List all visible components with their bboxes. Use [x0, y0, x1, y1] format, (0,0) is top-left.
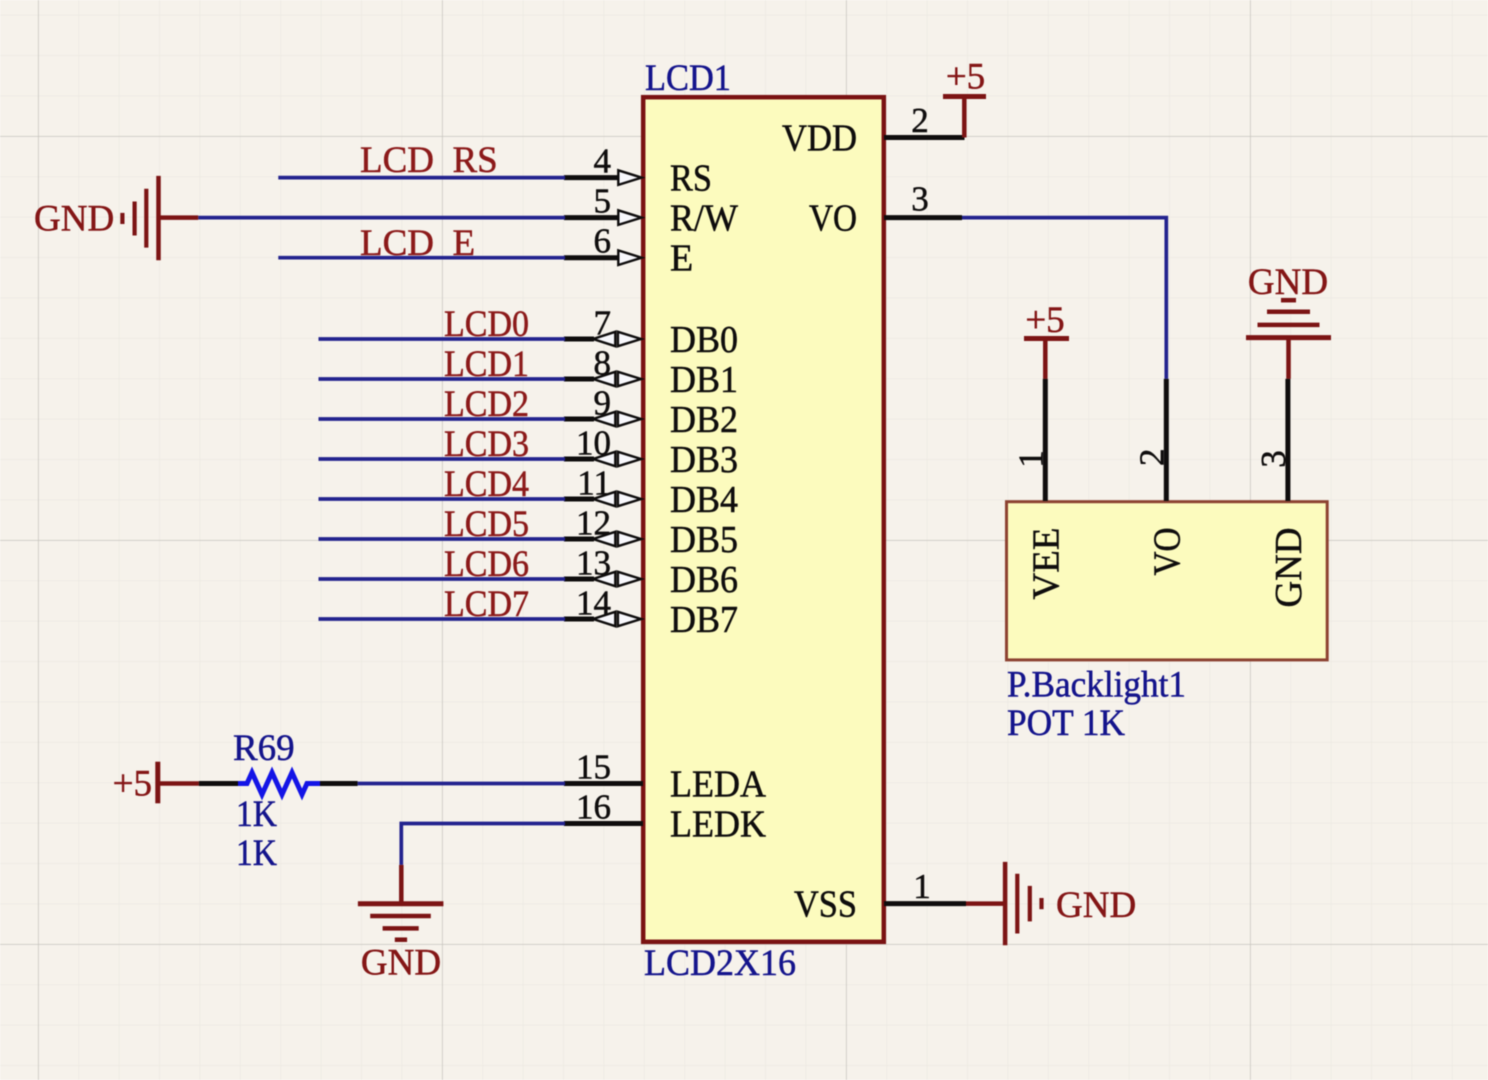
wire net LCD0 — [319, 337, 566, 341]
net label LCD6 — [444, 544, 529, 585]
svg-text:14: 14 — [576, 584, 611, 623]
svg-text:VO: VO — [1147, 528, 1189, 576]
svg-text:1: 1 — [1012, 450, 1051, 468]
svg-text:LEDK: LEDK — [670, 804, 767, 846]
net label LCD0 — [444, 304, 529, 345]
pin 8 DB1 — [564, 344, 738, 402]
power GND right (earth, pointing right, at VSS) — [966, 862, 1136, 945]
pin 9 DB2 — [564, 384, 738, 442]
potentiometer body P.Backlight1 — [1007, 502, 1328, 660]
svg-text:LCD RS: LCD RS — [360, 140, 498, 181]
wire net VO from pin 3 to pot pin 2 — [962, 218, 1166, 379]
pin 7 DB0 — [564, 304, 738, 362]
svg-text:LCD4: LCD4 — [444, 464, 529, 505]
svg-text:+5: +5 — [946, 57, 985, 98]
svg-text:DB4: DB4 — [670, 479, 738, 521]
net label LCD4 — [444, 464, 529, 505]
svg-text:LCD1: LCD1 — [645, 58, 731, 99]
pot pin 3 GND — [1254, 379, 1310, 608]
svg-text:LCD6: LCD6 — [444, 544, 529, 585]
svg-text:LCD3: LCD3 — [444, 424, 529, 465]
svg-text:LCD0: LCD0 — [444, 304, 529, 345]
power +5 top (VDD) — [943, 57, 986, 138]
power GND left (earth, pointing left) — [34, 176, 198, 260]
svg-text:R69: R69 — [233, 728, 295, 769]
svg-text:7: 7 — [594, 304, 612, 343]
svg-text:3: 3 — [1254, 450, 1293, 468]
wire net GND to pin 5 R/W — [198, 216, 565, 220]
pin 10 DB3 — [564, 424, 738, 482]
net label LCD1 — [444, 344, 529, 385]
wire net LCD1 — [319, 377, 566, 381]
wire net LCD5 — [319, 537, 566, 541]
net label LCD7 — [444, 584, 529, 625]
pin 16 LEDK — [564, 788, 767, 846]
pin 15 LEDA — [564, 748, 767, 806]
svg-text:11: 11 — [577, 464, 611, 503]
svg-text:GND: GND — [1268, 528, 1310, 608]
power GND top right (earth, pointing up) — [1246, 262, 1331, 379]
pot pin 2 VO — [1133, 379, 1189, 576]
svg-text:GND: GND — [1056, 885, 1136, 926]
wire net LCD3 — [319, 457, 566, 461]
svg-text:VEE: VEE — [1026, 528, 1068, 600]
pin 14 DB7 — [564, 584, 738, 642]
pin 3 VO — [809, 180, 962, 240]
LCD main component body U=LCD1 — [643, 97, 884, 942]
designator P.Backlight1 — [1007, 664, 1186, 705]
svg-text:3: 3 — [911, 180, 929, 219]
svg-text:RS: RS — [670, 158, 712, 200]
svg-text:DB0: DB0 — [670, 319, 738, 361]
designator LCD1 — [645, 58, 731, 99]
net label LCD2 — [444, 384, 529, 425]
svg-text:8: 8 — [594, 344, 612, 383]
svg-text:DB7: DB7 — [670, 599, 738, 641]
net label LCD5 — [444, 504, 529, 545]
svg-text:DB3: DB3 — [670, 439, 738, 481]
svg-text:6: 6 — [594, 222, 612, 261]
svg-text:+5: +5 — [1025, 300, 1064, 341]
pin 1 VSS — [794, 867, 966, 926]
svg-text:R/W: R/W — [670, 198, 738, 240]
wire net LEDK from pin 16 to GND — [401, 824, 565, 865]
svg-text:15: 15 — [576, 748, 611, 787]
svg-text:GND: GND — [361, 943, 441, 984]
svg-text:9: 9 — [594, 384, 612, 423]
pin 6 E — [564, 222, 693, 280]
pin 5 R/W — [564, 182, 738, 240]
wire net LCD_E to pin 6 — [278, 256, 565, 260]
svg-text:GND: GND — [1248, 262, 1328, 303]
resistor R69 — [199, 773, 358, 795]
pin 4 RS — [564, 142, 712, 200]
svg-text:DB6: DB6 — [670, 559, 738, 601]
svg-text:LCD7: LCD7 — [444, 584, 529, 625]
svg-text:LCD2X16: LCD2X16 — [644, 943, 796, 984]
net label LCD3 — [444, 424, 529, 465]
pin 13 DB6 — [564, 544, 738, 602]
value label 1K (parameter) — [236, 833, 277, 874]
svg-text:1K: 1K — [236, 794, 277, 835]
pin 12 DB5 — [564, 504, 738, 562]
svg-text:LEDA: LEDA — [670, 764, 767, 806]
svg-text:P.Backlight1: P.Backlight1 — [1007, 664, 1186, 705]
svg-text:DB1: DB1 — [670, 359, 738, 401]
svg-text:LCD E: LCD E — [360, 223, 475, 264]
pot pin 1 VEE — [1012, 379, 1068, 600]
svg-text:2: 2 — [911, 101, 929, 140]
svg-text:12: 12 — [576, 504, 611, 543]
wire net LCD_RS to pin 4 — [278, 176, 565, 180]
svg-text:1: 1 — [913, 867, 931, 906]
wire net LCD2 — [319, 417, 566, 421]
svg-text:2: 2 — [1133, 449, 1172, 467]
svg-text:4: 4 — [594, 142, 612, 181]
svg-text:+5: +5 — [113, 763, 152, 804]
svg-text:POT 1K: POT 1K — [1007, 703, 1125, 744]
svg-text:VSS: VSS — [794, 884, 857, 926]
svg-text:VO: VO — [809, 198, 857, 240]
svg-text:DB5: DB5 — [670, 519, 738, 561]
svg-text:13: 13 — [576, 544, 611, 583]
comment POT 1K — [1007, 703, 1125, 744]
wire net LEDA from resistor to pin 15 — [358, 782, 565, 786]
value label 1K (comment) — [236, 794, 277, 835]
svg-text:GND: GND — [34, 199, 114, 240]
svg-text:10: 10 — [576, 424, 611, 463]
svg-text:1K: 1K — [236, 833, 277, 874]
pin 2 VDD — [782, 101, 965, 160]
svg-text:16: 16 — [576, 788, 611, 827]
svg-text:VDD: VDD — [782, 118, 857, 160]
svg-text:LCD5: LCD5 — [444, 504, 529, 545]
comment LCD2X16 — [644, 943, 796, 984]
wire net LCD6 — [319, 577, 566, 581]
wire net LCD7 — [319, 617, 566, 621]
power +5 above pot pin 1 — [1024, 300, 1069, 379]
svg-text:E: E — [670, 238, 693, 280]
designator R69 — [233, 728, 295, 769]
svg-text:LCD1: LCD1 — [444, 344, 529, 385]
wire net LCD4 — [319, 497, 566, 501]
power GND bottom (earth, pointing down) — [358, 865, 444, 984]
power +5 left (resistor feed) — [113, 762, 199, 805]
net label LCD E — [360, 223, 475, 264]
svg-text:LCD2: LCD2 — [444, 384, 529, 425]
net label LCD RS — [360, 140, 498, 181]
svg-text:5: 5 — [594, 182, 612, 221]
pin 11 DB4 — [564, 464, 738, 522]
svg-text:DB2: DB2 — [670, 399, 738, 441]
